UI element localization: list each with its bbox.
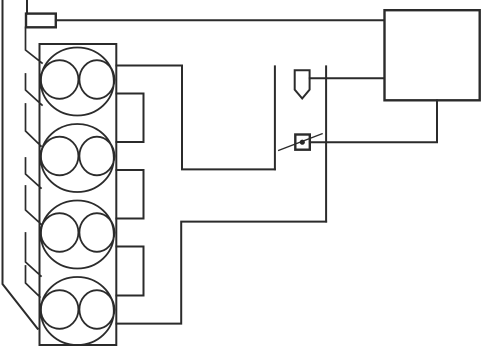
cylinder 1 right valve bbox=[79, 60, 114, 99]
ECU U1 (large box top-right) bbox=[385, 10, 480, 100]
wire: connector to ECU bbox=[56, 19, 385, 21]
cylinder 3 left valve bbox=[41, 213, 79, 252]
cylinder 3 bore bbox=[41, 201, 114, 269]
throttle plate (diagonal blade) bbox=[279, 134, 322, 151]
bracket port 1-2 bbox=[116, 94, 143, 143]
bracket port 2-3 bbox=[116, 170, 143, 219]
intake runner 1a (connector lead into cylinder 1) bbox=[26, 27, 43, 63]
throttle body left wall bbox=[274, 66, 276, 169]
connector J1 (top-left small box) bbox=[26, 14, 56, 28]
wire: vertical lead above connector bbox=[26, 0, 28, 14]
cylinder 4 bore bbox=[41, 277, 114, 345]
wire: injector to ECU bbox=[310, 77, 385, 79]
injector (pentagon) bbox=[295, 70, 310, 98]
cylinder 2 bore bbox=[41, 124, 114, 192]
wire: cylinder4 lower stub to throttle body right wall bbox=[116, 222, 326, 324]
intake runner 4a bbox=[26, 266, 41, 297]
bracket port 3-4 bbox=[116, 247, 143, 296]
wire: far-left manifold line bbox=[3, 0, 38, 329]
cylinder 3 right valve bbox=[79, 213, 114, 252]
cylinder 1 left valve bbox=[41, 60, 79, 99]
wire: cylinder1 upper stub to throttle body left wall bbox=[116, 66, 275, 170]
cylinder 2 right valve bbox=[79, 137, 114, 176]
intake runner 3b bbox=[26, 233, 42, 276]
cylinder 2 left valve bbox=[41, 137, 79, 176]
intake runner 1b bbox=[26, 74, 43, 105]
intake runner 3a bbox=[26, 186, 42, 224]
cylinder 1 bore bbox=[41, 48, 114, 116]
wire: throttle pivot to ECU bbox=[310, 100, 437, 142]
intake runner 2a bbox=[26, 104, 42, 146]
engine block bbox=[40, 44, 117, 345]
throttle pivot box bbox=[295, 135, 310, 150]
throttle pivot dot bbox=[300, 140, 305, 145]
throttle body right wall bbox=[325, 66, 327, 221]
cylinder 4 right valve bbox=[79, 290, 114, 329]
cylinder 4 left valve bbox=[41, 290, 79, 329]
intake runner 2b bbox=[26, 158, 42, 188]
